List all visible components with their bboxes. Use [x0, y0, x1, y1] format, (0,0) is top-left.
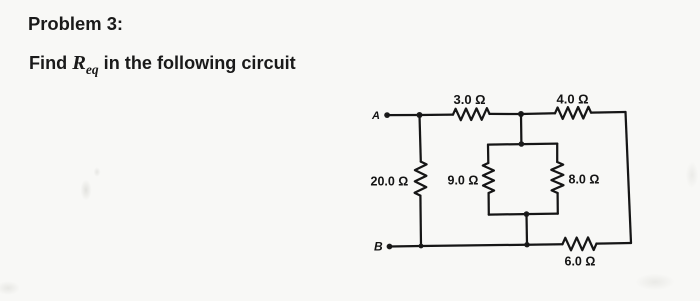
wire R7 to box bottom-right [556, 193, 558, 214]
junction J2 [518, 111, 524, 117]
wire right edge (top-right corner down to bottom-right corner) [626, 112, 632, 243]
resistor R1 3.0 ohm [453, 108, 490, 120]
svg-text:4.0 Ω: 4.0 Ω [557, 92, 589, 107]
wire R2 to top-right corner [591, 111, 626, 114]
wire box top-left down to resistor R6 [487, 145, 490, 163]
wire J2 to resistor R2 [521, 112, 555, 115]
label 3.0 ohm [454, 92, 486, 107]
junction J5 [419, 244, 424, 249]
label 4.0 ohm [557, 92, 589, 107]
svg-text:20.0 Ω: 20.0 Ω [371, 175, 409, 189]
junction J3 on box top bar [519, 141, 525, 147]
label 6.0 ohm [565, 255, 596, 269]
svg-text:A: A [371, 110, 380, 122]
wire J5 to junction J6 [421, 245, 527, 246]
wire parallel-box top bar [488, 144, 557, 145]
label 20.0 ohm [371, 175, 409, 189]
label node B [374, 240, 383, 254]
svg-text:8.0 Ω: 8.0 Ω [569, 173, 600, 187]
resistor R8 6.0 ohm [563, 237, 597, 250]
svg-text:6.0 Ω: 6.0 Ω [565, 255, 596, 269]
wire J4 down to junction J6 on bottom wire [525, 214, 528, 245]
junction J1 [417, 112, 423, 118]
junction J4 on box bottom bar [524, 211, 530, 217]
svg-text:3.0 Ω: 3.0 Ω [454, 92, 486, 107]
wire J1 to resistor R1 [420, 113, 454, 116]
wire B to junction J5 [390, 245, 422, 248]
wire J1 down to resistor R5 [420, 115, 421, 162]
junction J6 [524, 242, 529, 247]
resistor R6 9.0 ohm [483, 163, 494, 193]
label 9.0 ohm [448, 174, 479, 188]
wire R8 to bottom-right corner [597, 242, 632, 245]
svg-text:9.0 Ω: 9.0 Ω [448, 174, 479, 188]
wire parallel-box bottom bar [489, 214, 558, 215]
resistor R2 4.0 ohm [555, 107, 591, 119]
wire R1 to junction J2 [490, 113, 522, 115]
node A [384, 112, 390, 118]
label node A [371, 110, 380, 122]
resistor R7 8.0 ohm [551, 162, 563, 193]
wire J2 down to parallel-box top bar [520, 114, 523, 144]
label 8.0 ohm [569, 173, 600, 187]
wire A to junction J1 [387, 114, 419, 116]
wire box top-right down to resistor R7 [556, 144, 558, 162]
svg-text:B: B [374, 240, 383, 254]
node B [387, 244, 393, 250]
wire R5 to junction J5 on bottom wire [419, 196, 422, 246]
wire R6 to box bottom-left [487, 193, 489, 215]
resistor R5 20.0 ohm [415, 162, 427, 196]
wire J6 to resistor R8 [527, 243, 563, 246]
